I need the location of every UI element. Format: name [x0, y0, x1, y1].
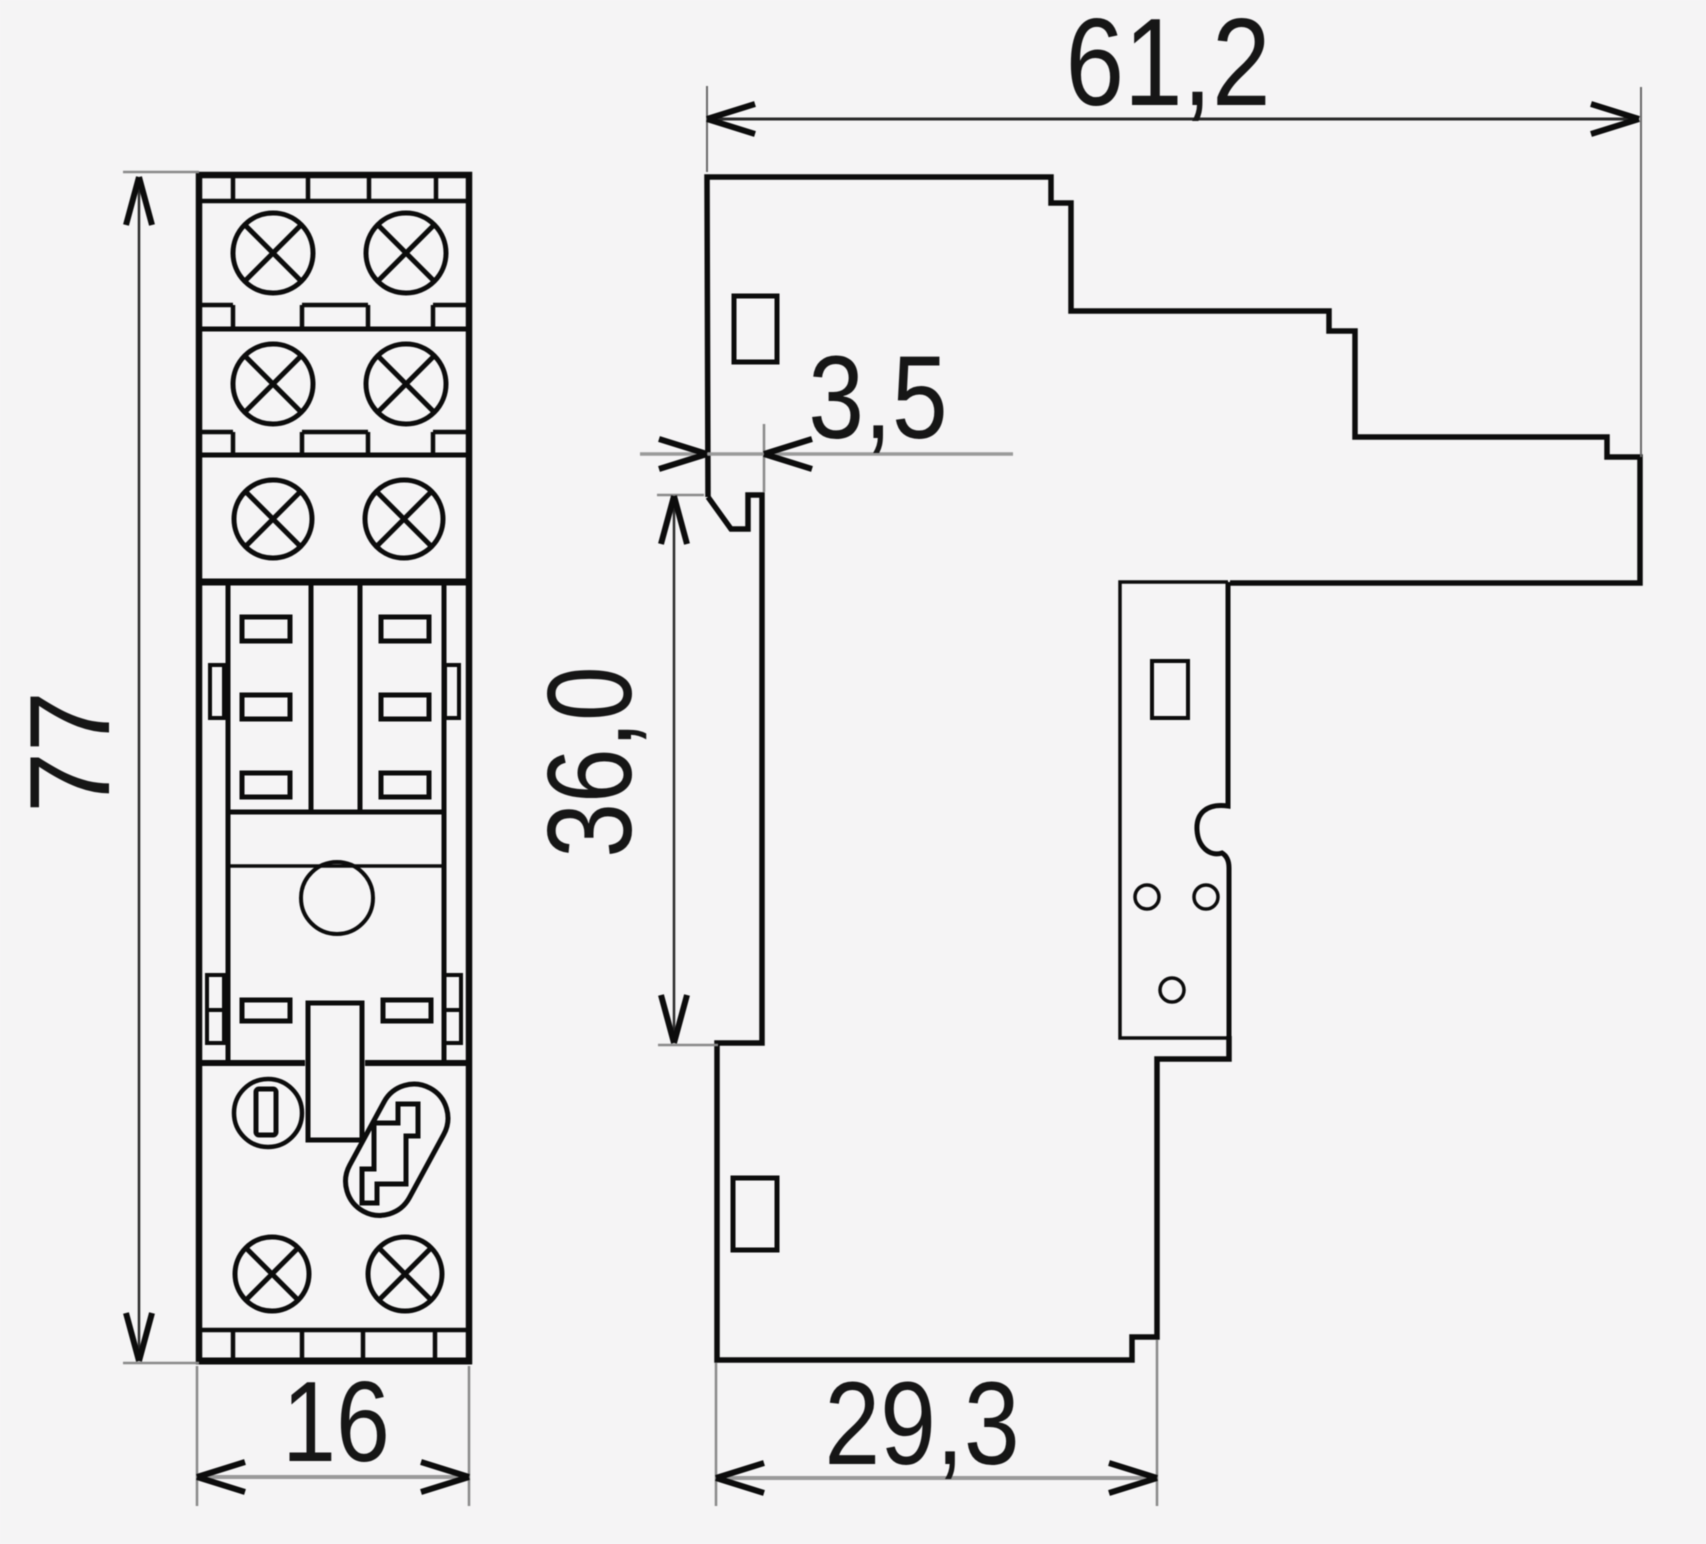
dimension 36,0 extension top	[657, 494, 704, 497]
DIN clip bracket outline (left, top, bottom)	[1120, 582, 1228, 1038]
dimension 16 extension right	[468, 1366, 471, 1506]
bracket hole circle 3	[1160, 978, 1184, 1002]
svg-text:16: 16	[282, 1359, 390, 1486]
svg-text:61,2: 61,2	[1065, 0, 1270, 132]
dimension 3,5 line	[640, 452, 1013, 456]
bottom band divider 3	[361, 1330, 366, 1358]
side profile outline lower part	[708, 495, 1229, 1360]
top band divider 1	[231, 175, 236, 201]
screw terminal row2 right circle	[366, 344, 446, 424]
dimension 29,3 line	[716, 1476, 1157, 1480]
dimension 61,2 left arrow	[707, 104, 755, 134]
side tab lower left divider	[207, 1008, 224, 1012]
bottom screw right circle	[368, 1237, 442, 1311]
screw row2 left X	[244, 355, 302, 413]
screw terminal row2 left circle	[233, 344, 313, 424]
contact slot rowD right	[383, 1000, 431, 1021]
dimension 16 left arrow	[197, 1462, 245, 1492]
dimension 29,3 extension left	[715, 1363, 718, 1506]
locking screw circle	[234, 1079, 302, 1147]
bottom screw right X	[378, 1247, 432, 1301]
contact slot rowC right	[381, 773, 429, 797]
side profile outline upper part	[707, 177, 1640, 583]
dimension 36,0 top arrow	[661, 496, 687, 544]
thick separator between terminals and contact area	[199, 579, 469, 586]
dimension 29,3 left arrow	[716, 1463, 764, 1493]
dimension 77 top arrow	[126, 177, 152, 225]
bracket rectangular hole	[1152, 661, 1188, 718]
dimension 77 bottom arrow	[126, 1313, 152, 1361]
screw row3 right X	[376, 491, 432, 547]
contact column vertical right inner	[358, 582, 363, 812]
separator band1 top tab segments	[199, 303, 469, 308]
screw row2 right X	[377, 355, 435, 413]
dimension 77 extension top	[123, 171, 199, 174]
top band divider 2	[306, 175, 311, 201]
bottom screw left X	[245, 1247, 299, 1301]
contact column vertical right outer	[442, 582, 447, 1063]
separator band2 top tab segments	[199, 430, 469, 435]
bottom band line	[199, 1328, 469, 1333]
dimension 77 extension bottom	[123, 1362, 199, 1365]
separator band1 verticals	[233, 305, 433, 329]
screw terminal row1 left circle	[233, 213, 313, 293]
dimension 61,2 extension line left	[706, 86, 708, 172]
contact slot rowB right	[381, 695, 429, 719]
contact slot rowB left	[242, 695, 290, 719]
screw terminal row1 right circle	[366, 213, 446, 293]
svg-text:3,5: 3,5	[808, 332, 947, 463]
contact slot rowD left	[242, 1000, 290, 1021]
dimension 36,0 extension bottom	[658, 1044, 718, 1047]
svg-text:29,3: 29,3	[824, 1358, 1019, 1489]
lower thick separator left segment	[199, 1060, 305, 1066]
contact column vertical left outer	[226, 582, 231, 1063]
top band divider 4	[434, 175, 439, 201]
screw terminal row3 right circle	[365, 480, 443, 558]
side tab lower right	[444, 975, 461, 1043]
dimension 16 extension left	[196, 1366, 199, 1506]
dimension 29,3 extension right	[1156, 1340, 1159, 1506]
dimension 77 line	[138, 177, 141, 1361]
contact slot rowA right	[381, 617, 429, 641]
side view lower hole	[733, 1178, 777, 1250]
dimension 36,0 bottom arrow	[661, 995, 687, 1043]
screw terminal row3 left circle	[234, 480, 312, 558]
dimension 3,5 left arrow (outside pointing right)	[659, 439, 707, 469]
side tab lower left	[207, 975, 224, 1043]
thin line above center hole	[228, 864, 444, 868]
dimension 16 right arrow	[421, 1462, 469, 1492]
side tab upper right	[445, 665, 459, 718]
dimension 61,2 extension line right	[1640, 87, 1642, 457]
contact column vertical left inner	[309, 582, 314, 812]
contact slot rowC left	[242, 773, 290, 797]
bracket hole circle 1	[1135, 885, 1159, 909]
bottom band divider 2	[300, 1330, 305, 1358]
bottom thick edge	[196, 1358, 472, 1365]
separator band2 verticals	[233, 432, 433, 455]
dimension 36,0 line	[673, 496, 676, 1043]
bottom screw left circle	[235, 1237, 309, 1311]
separator band1 bottom line	[199, 327, 469, 332]
release lever stadium	[333, 1072, 460, 1227]
dimension 16 line	[197, 1475, 469, 1479]
central lever bar	[308, 1003, 362, 1140]
top band divider 3	[367, 175, 372, 201]
lower thick separator right segment	[365, 1060, 469, 1066]
svg-text:77: 77	[6, 691, 134, 813]
contact columns bottom line	[228, 810, 444, 815]
dimension 61,2 line	[707, 118, 1639, 121]
dimension 3,5 extension (right, vertical)	[763, 424, 766, 492]
front view outer body rectangle	[199, 175, 469, 1361]
screw row1 right X	[377, 224, 435, 282]
release lever zigzag	[362, 1104, 418, 1203]
screw row3 left X	[245, 491, 301, 547]
center hole circle	[301, 862, 373, 934]
side view upper hole	[734, 296, 777, 362]
dimension 61,2 right arrow	[1591, 104, 1639, 134]
bottom band divider 4	[433, 1330, 438, 1358]
locking screw slot	[256, 1089, 276, 1135]
side tab upper left	[210, 665, 224, 718]
svg-text:36,0: 36,0	[524, 666, 657, 857]
bottom band divider 1	[231, 1330, 236, 1358]
contact slot rowA left	[242, 617, 290, 641]
dimension 29,3 right arrow	[1109, 1463, 1157, 1493]
dimension 3,5 right arrow (outside pointing left)	[764, 439, 812, 469]
separator band2 bottom line	[199, 453, 469, 458]
side tab lower right divider	[444, 1008, 461, 1012]
top band horizontal line	[199, 199, 469, 204]
screw row1 left X	[244, 224, 302, 282]
DIN clip bracket right edge with latch notch	[1197, 582, 1229, 1038]
bracket hole circle 2	[1194, 885, 1218, 909]
